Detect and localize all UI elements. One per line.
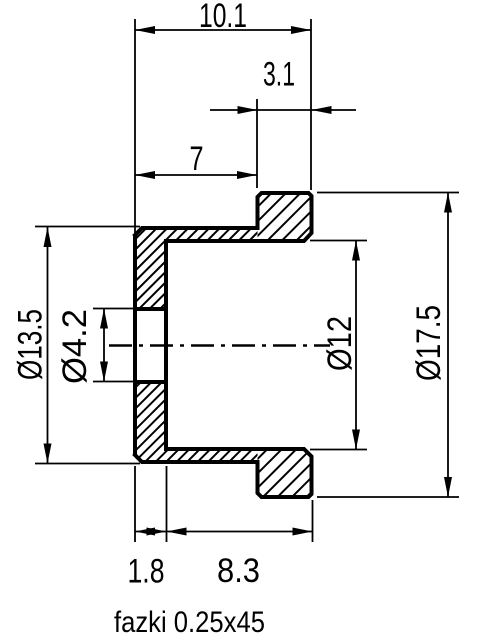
outer face line (133, 235, 137, 455)
extension line left x135 (134, 19, 136, 233)
extension line bottom x166.5 (166, 466, 168, 542)
part outline lower (135, 382, 312, 497)
inner wall line (164, 309, 168, 382)
extension line phi4.2 bottom (93, 381, 136, 383)
svg-text:Ø17.5: Ø17.5 (410, 305, 448, 381)
extension line phi12 bottom (310, 449, 367, 451)
svg-text:3.1: 3.1 (263, 56, 295, 94)
extension line phi4.2 top (93, 308, 136, 310)
extension line bottom x135 (134, 466, 136, 542)
svg-text:fazki 0.25x45: fazki 0.25x45 (114, 606, 265, 639)
svg-text:Ø4.2: Ø4.2 (56, 309, 94, 384)
dimension 7 line (135, 174, 257, 176)
dimension phi13.5 line (47, 227, 49, 464)
svg-text:10.1: 10.1 (199, 0, 247, 35)
extension line phi12 top (310, 240, 367, 242)
center line (109, 344, 330, 347)
extension line phi17.5 bottom (317, 496, 459, 498)
dimension 1.8 and 8.3 line (135, 531, 313, 533)
extension line phi17.5 top (317, 192, 459, 194)
extension line right x311 (310, 19, 312, 190)
hole bottom edge (134, 380, 168, 384)
svg-text:Ø12: Ø12 (321, 316, 359, 371)
extension line phi13.5 bottom (35, 463, 140, 465)
svg-text:8.3: 8.3 (217, 552, 260, 590)
extension line bottom x312.5 (312, 500, 314, 542)
dimension phi4.2 line (103, 309, 105, 382)
hole top edge (134, 307, 168, 311)
extension line x257 (256, 99, 258, 188)
svg-text:7: 7 (190, 140, 204, 178)
svg-text:1.8: 1.8 (128, 553, 165, 591)
dimension 10.1 line (135, 29, 311, 31)
svg-text:Ø13.5: Ø13.5 (12, 309, 50, 380)
dimension phi17.5 line (447, 193, 449, 498)
part outline upper (135, 193, 312, 309)
dimension phi12 line (355, 241, 357, 450)
dimension 3.1 line (210, 109, 356, 111)
extension line phi13.5 top (35, 226, 140, 228)
